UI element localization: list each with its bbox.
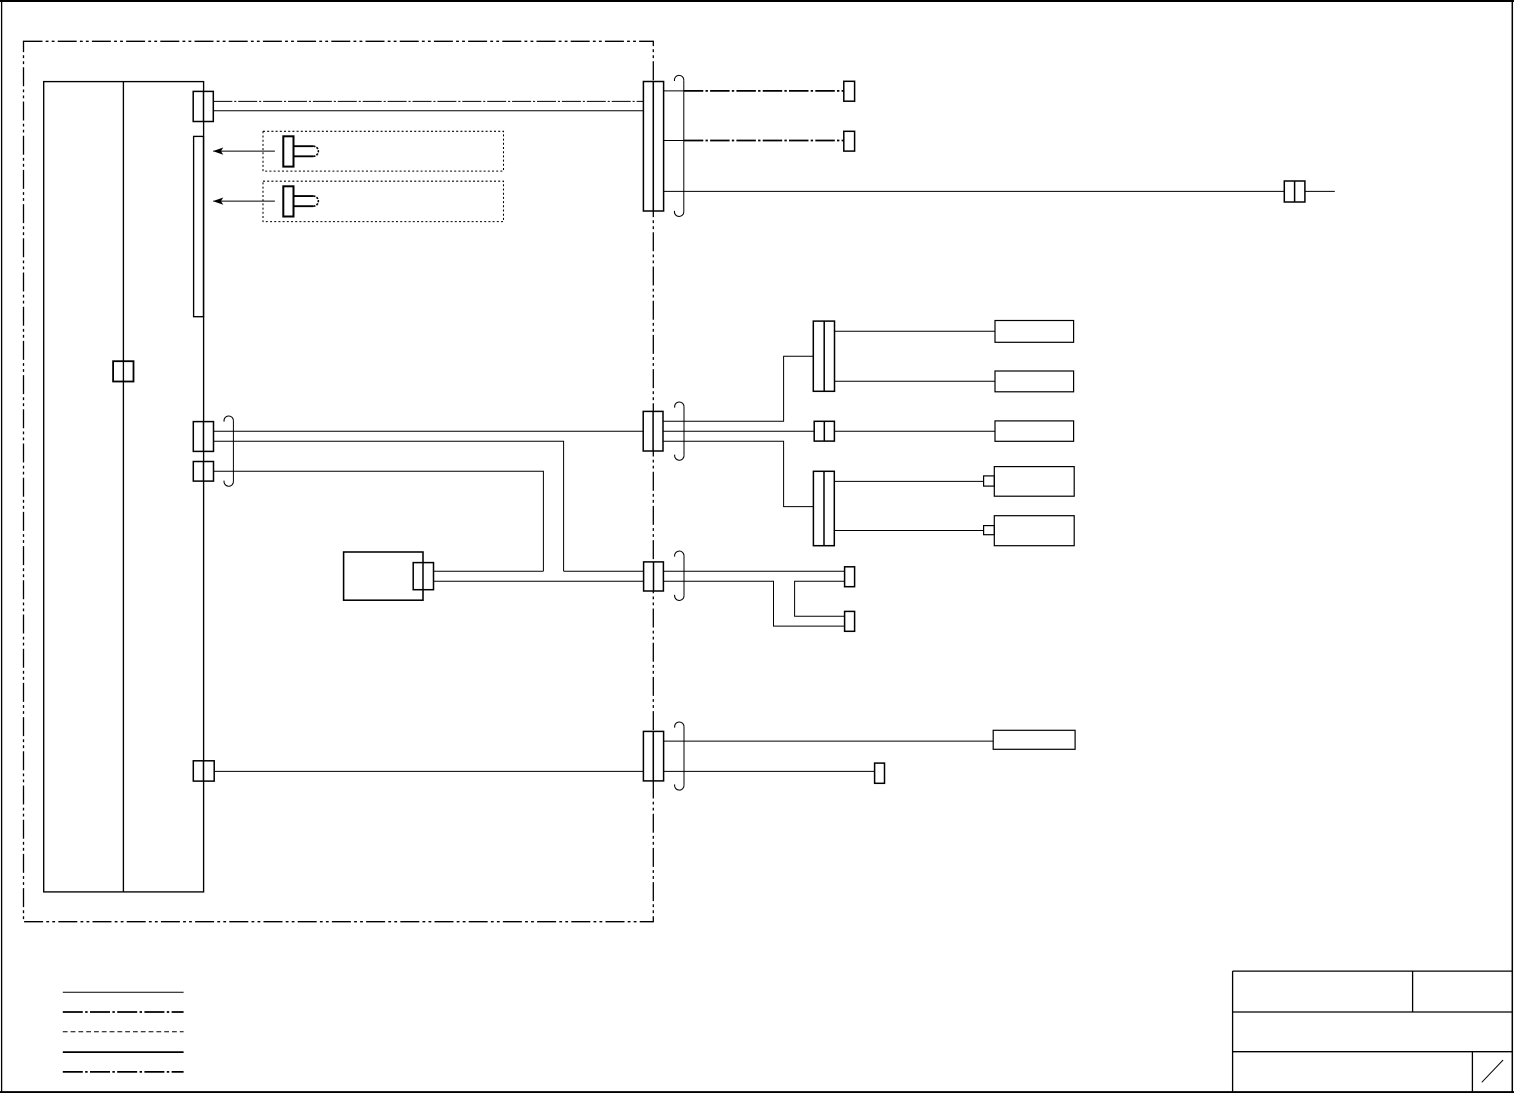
sheet border bottom (0, 1091, 1514, 1093)
relay box B5 tab (984, 526, 995, 535)
wire W14 long lead to inline connector E (664, 190, 1285, 192)
wire W20 (top pair to box1) (835, 330, 996, 332)
title block frame (1233, 971, 1512, 1091)
wire W22 (lower pair to box4 tab) (834, 480, 983, 482)
wire W13 phantom dash-dot to terminal T2 (684, 140, 844, 142)
wire W24 (connC pin1 to terminal T3) (663, 570, 844, 572)
dotted option box 2 (263, 181, 504, 221)
grommet loop GB (675, 402, 684, 460)
terminal T5 (875, 763, 885, 783)
connector CD (boundary, bottom) (643, 731, 663, 781)
wire W5 (left conn3 to module upper pin) (214, 471, 544, 571)
relay box B2 (995, 371, 1074, 392)
wire W15 right of inline connector E (1305, 190, 1335, 192)
connector C3 (J/B mid lower) (193, 462, 213, 482)
grommet loop GD (675, 722, 684, 790)
module M1 box (344, 552, 423, 600)
connector pair CP1 (right top) (813, 321, 834, 391)
grommet loop GL (left pair) (224, 416, 233, 486)
connector pair CP2 (right lower) (813, 471, 834, 545)
wire W10 solid stub connA pin1 (664, 90, 684, 92)
connector CB (boundary, middle) (643, 411, 663, 451)
connector C2 (J/B mid upper) (193, 422, 213, 452)
legend line L1 thin solid (63, 991, 184, 993)
wire W26 jumper link T3 to T4 (795, 581, 845, 616)
wire W17 (connB pin2 through inline conn to box3) (663, 430, 814, 432)
harness phantom outline (dash-dot-dot boundary) (24, 41, 654, 921)
legend line L3 thin dashed (63, 1031, 184, 1033)
wire W8 (module pin2 to connC pin2) (434, 580, 644, 582)
terminal T2 (844, 131, 855, 151)
sheet border left (1, 0, 3, 1093)
dotted option box 1 (263, 131, 504, 171)
wire W27 (connD pin1 to box6) (664, 740, 994, 742)
wire W1 dash-dot (conn1 to connA) (213, 100, 643, 102)
key symbol K1 bar (283, 136, 293, 166)
legend line L4 thick solid (63, 1051, 184, 1053)
wire W25 (connC pin2 down to terminal T4) (663, 581, 844, 626)
module connector CM (413, 563, 433, 590)
wire W7 (vertical W4 to connC pin1) (564, 570, 644, 572)
arrow A2 (213, 198, 275, 205)
sheet border right (1511, 0, 1513, 1093)
wire W4 (left conn2 lower pin, drops to module line) (214, 441, 564, 571)
junction block J/B outline (44, 82, 204, 892)
arrow A1 (213, 148, 275, 155)
wire W2 solid (conn1 to connA) (213, 110, 643, 112)
relay box B1 (995, 321, 1074, 343)
junction block divider (122, 82, 124, 892)
fuse square F1 on divider (113, 361, 133, 381)
wire W9 (left conn4 to connD) (214, 770, 643, 772)
wire W3 (left conn2 to connB) (214, 430, 644, 432)
relay box B6 (993, 730, 1075, 749)
wire W18 (inline conn to box3) (834, 430, 995, 432)
connector CC (boundary, module circuit) (644, 562, 664, 591)
wire W23 (lower pair to box5 tab) (834, 530, 983, 532)
key symbol K1 tab (294, 146, 313, 156)
terminal T1 (844, 81, 855, 101)
key symbol K2 tab (294, 196, 313, 206)
inner strip bar on J/B right edge (194, 136, 204, 316)
wire W6 (module pin1 to vertical W5) (434, 570, 544, 572)
wire W16 (connB pin1 up to top pair) (663, 356, 813, 421)
wire W21 (top pair to box2) (835, 380, 996, 382)
connector C4 (J/B bottom) (193, 761, 214, 781)
key symbol K2 bar (283, 186, 293, 216)
wire W28 (connD pin2 to terminal T5) (664, 770, 875, 772)
terminal T4 (845, 611, 855, 631)
inline connector CE (mid) (814, 421, 834, 441)
title block diagonal slash (1482, 1060, 1503, 1082)
wire W19 (connB pin3 down to lower pair) (663, 441, 813, 506)
connector C1 (J/B top) (193, 91, 213, 121)
legend line L2 thick dash-dot (63, 1011, 184, 1013)
legend line L5 thick dash-dot (63, 1071, 184, 1073)
grommet loop GA (674, 75, 683, 216)
sheet border top (0, 0, 1514, 2)
relay box B4 tab (984, 476, 995, 486)
terminal T3 (845, 567, 855, 587)
relay box B5 (994, 516, 1074, 546)
wire W11 phantom dash-dot to terminal T1 (684, 90, 844, 92)
connector CA (boundary, top) (643, 82, 663, 212)
relay box B3 (995, 421, 1074, 441)
inline connector CF (top right) (1284, 181, 1305, 202)
wire W12 solid stub connA pin2 (664, 140, 684, 142)
relay box B4 (994, 467, 1074, 497)
grommet loop GC (675, 551, 684, 600)
